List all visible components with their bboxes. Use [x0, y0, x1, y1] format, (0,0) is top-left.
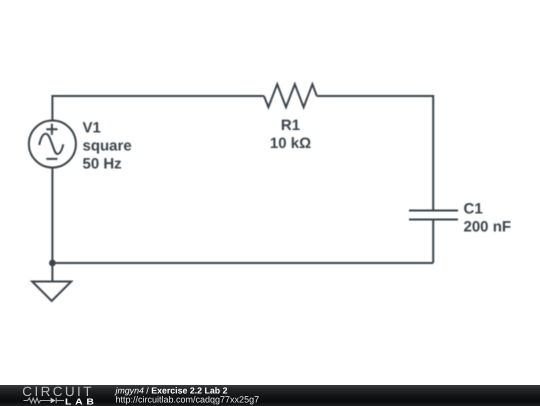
- ground: [32, 282, 71, 302]
- V1 sine wave: [39, 134, 63, 154]
- wire: V1 bottom lead: [51, 168, 53, 264]
- svg-text:R1: R1: [281, 117, 300, 134]
- V1 plus sign: [46, 124, 57, 135]
- logo diode triangle: [51, 397, 56, 403]
- V1 minus sign: [46, 158, 57, 160]
- logo CIRCUIT text: [22, 384, 94, 399]
- svg-text:http://circuitlab.com/cadqg77x: http://circuitlab.com/cadqg77xx25g7: [116, 394, 260, 404]
- svg-text:200 nF: 200 nF: [464, 218, 512, 235]
- logo resistor zigzag and diode: [24, 397, 65, 403]
- wire: resistor right to capacitor top: [317, 96, 433, 210]
- footer bar with CircuitLab branding: [0, 385, 540, 406]
- resistor R1: [264, 84, 317, 107]
- svg-text:LAB: LAB: [65, 396, 98, 406]
- capacitor C1: [409, 211, 458, 220]
- svg-text:C1: C1: [464, 201, 483, 218]
- voltage source V1: [29, 121, 76, 168]
- wire: V1 top to resistor left: [52, 96, 264, 121]
- svg-text:10 kΩ: 10 kΩ: [270, 135, 311, 152]
- svg-text:50 Hz: 50 Hz: [83, 156, 122, 173]
- wire: capacitor bottom lead: [432, 221, 434, 264]
- junction node: [49, 260, 56, 267]
- logo LAB text: [65, 396, 98, 406]
- wire: ground lead: [51, 263, 53, 282]
- svg-text:square: square: [83, 138, 132, 155]
- svg-text:V1: V1: [83, 120, 101, 137]
- wire: bottom return: [52, 262, 433, 264]
- title line: [115, 385, 260, 404]
